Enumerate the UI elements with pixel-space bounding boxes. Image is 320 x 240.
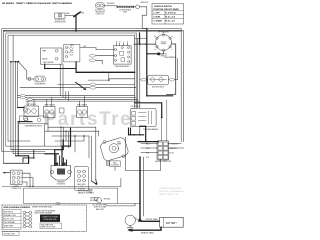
svg-text:BLK: BLK (146, 157, 149, 159)
svg-text:B & L & A: B & L & A (166, 16, 176, 19)
svg-text:PUMP: PUMP (117, 144, 121, 146)
svg-text:PUR: PUR (83, 46, 86, 48)
svg-text:L: L (172, 49, 173, 51)
6-pin connector J1 (10, 170, 22, 190)
title (2, 2, 73, 5)
starter solenoid K2 (50, 163, 71, 186)
center mesh wires (45, 127, 99, 182)
svg-text:IGNITION SWITCH: IGNITION SWITCH (154, 6, 173, 8)
glow plug controller U2 (54, 13, 66, 23)
svg-text:GROUND: GROUND (104, 199, 112, 201)
svg-text:SERVICE DIAGRAMS AT: SERVICE DIAGRAMS AT (159, 190, 185, 193)
svg-text:3. START: 3. START (153, 19, 163, 22)
svg-text:HOUR METER: HOUR METER (35, 84, 47, 86)
svg-text:FROM WIRE SIDE: FROM WIRE SIDE (43, 219, 56, 221)
svg-text:ORN: ORN (146, 148, 149, 150)
svg-text:CONTROLLER: CONTROLLER (54, 21, 66, 23)
lower-left bus turns (6, 146, 62, 150)
svg-text:CONNECTOR PIN NUMBERS: CONNECTOR PIN NUMBERS (35, 211, 55, 213)
svg-text:LIGHT 12V: LIGHT 12V (96, 13, 105, 15)
mid horizontal runs (88, 79, 109, 81)
hour meter M1 (34, 76, 46, 85)
fusible link F1 (117, 6, 134, 8)
solenoid wires (62, 128, 71, 165)
svg-text:PTO SWITCH: PTO SWITCH (131, 106, 140, 108)
dash harness switch S3 (20, 116, 49, 127)
ignition switch S1 (154, 31, 173, 58)
svg-text:B: B (119, 42, 120, 44)
left verticals going down (11, 62, 18, 156)
bus wires nested top-left (2, 29, 181, 152)
svg-text:CONNECTOR VIEWED: CONNECTOR VIEWED (42, 217, 60, 219)
svg-text:PARTSTREE COM: PARTSTREE COM (159, 193, 178, 196)
svg-text:HD SERIES - TWENTY THREE HP KO: HD SERIES - TWENTY THREE HP KOHLER KEY S… (2, 2, 73, 5)
time delay relay K1 (113, 41, 131, 68)
thick wire down to battery (139, 157, 141, 219)
solenoid back-view inset (75, 167, 89, 191)
svg-text:(VIEWED FROM WIRE SIDE): (VIEWED FROM WIRE SIDE) (32, 206, 53, 208)
thick feeds to fuel pump (129, 128, 131, 135)
fuel pump P1 (99, 137, 129, 167)
svg-text:GROUND: GROUND (90, 200, 96, 202)
svg-text:WIRE SPLICE: WIRE SPLICE (4, 211, 13, 213)
thick wire to module (135, 103, 162, 118)
svg-text:WIRE COLOR CODE: WIRE COLOR CODE (41, 227, 55, 229)
light/PTO switch S2 (64, 44, 80, 62)
watermark corner note (159, 187, 185, 196)
svg-text:TEMP: TEMP (42, 51, 46, 53)
legend table (2, 205, 87, 235)
svg-text:BATTERY: BATTERY (166, 222, 177, 225)
bullet connector (136, 5, 140, 9)
svg-text:CONNECTOR: CONNECTOR (11, 188, 22, 190)
solenoid leads (56, 154, 67, 166)
thick loop from switch bottom (147, 95, 173, 97)
dash gauges G2 G3 G4 (23, 104, 87, 121)
svg-text:2. RUN: 2. RUN (153, 17, 160, 19)
svg-text:WHT/BLK: WHT/BLK (141, 2, 149, 4)
diagonal connector arrow (74, 13, 80, 17)
note box and harness rule (2, 185, 121, 187)
diode module D1 (148, 75, 169, 88)
ignition switch table (152, 4, 184, 25)
svg-text:DIODE MODULE: DIODE MODULE (152, 87, 164, 89)
middle bundle verticals going down (135, 33, 140, 135)
thick bus segment (4, 30, 181, 32)
svg-text:G & M & A: G & M & A (166, 12, 177, 15)
svg-text:SOLENOID: SOLENOID (78, 188, 85, 190)
engine comp box row2 (0, 0, 1, 1)
glow plug indicator light L1 (95, 3, 106, 16)
diagonal arrow center (76, 82, 86, 89)
svg-text:SOLENOID: SOLENOID (57, 184, 66, 186)
svg-text:ENGINE CONNECTOR: ENGINE CONNECTOR (155, 161, 172, 163)
left junction bar and diagonal (10, 35, 27, 79)
feed wire into switch (134, 43, 156, 45)
diagonal arrow blob (92, 180, 97, 185)
svg-text:ORN: ORN (70, 45, 73, 47)
svg-text:WIRE DIAGRAM NUMBERS: WIRE DIAGRAM NUMBERS (3, 206, 30, 209)
ground note symbol above legend (96, 198, 101, 203)
engine connector J2 (138, 141, 158, 143)
svg-text:FUEL: FUEL (113, 162, 117, 164)
negative battery cable (132, 227, 161, 230)
svg-text:VOLT METER: VOLT METER (26, 104, 37, 106)
svg-text:B & L & S: B & L & S (166, 20, 176, 22)
svg-text:1. OFF: 1. OFF (153, 13, 160, 15)
wire bundle verticals center (60, 64, 68, 101)
svg-text:OWNERS PARTS AND: OWNERS PARTS AND (159, 187, 182, 190)
svg-text:TO ENGINE: TO ENGINE (170, 144, 178, 146)
svg-text:BULLET CONN: BULLET CONN (4, 218, 14, 220)
svg-text:BLK: BLK (70, 54, 73, 56)
thick vertical x139.5 (139, 33, 141, 44)
svg-text:POSITION CIRCUIT MADE: POSITION CIRCUIT MADE (153, 8, 179, 11)
svg-text:(S/N 0000 & UP): (S/N 0000 & UP) (4, 233, 16, 235)
temp/fuel gauge G1 (40, 48, 62, 64)
svg-text:SOLENOID: SOLENOID (111, 165, 120, 167)
svg-text:NOTE: SEE ENGINE: NOTE: SEE ENGINE (78, 190, 92, 192)
thin from switch right (167, 44, 176, 94)
PTO switch module U3 (130, 106, 156, 127)
battery BT1 (160, 217, 184, 227)
harness wires bottom (22, 173, 121, 186)
svg-text:PartsTree: PartsTree (44, 109, 145, 130)
thick vertical from arrow to bus (75, 16, 77, 31)
starter motor + frame ground (125, 215, 135, 225)
wire label WHT/BLK (107, 3, 115, 5)
long thin to battery wire (56, 202, 60, 204)
gauge top stubs (28, 96, 84, 107)
thick from pto down (75, 62, 77, 72)
svg-text:WHT/BLK: WHT/BLK (107, 3, 115, 5)
wire from fuse circle down to switch area (142, 7, 147, 29)
svg-text:FUEL: FUEL (117, 142, 121, 144)
